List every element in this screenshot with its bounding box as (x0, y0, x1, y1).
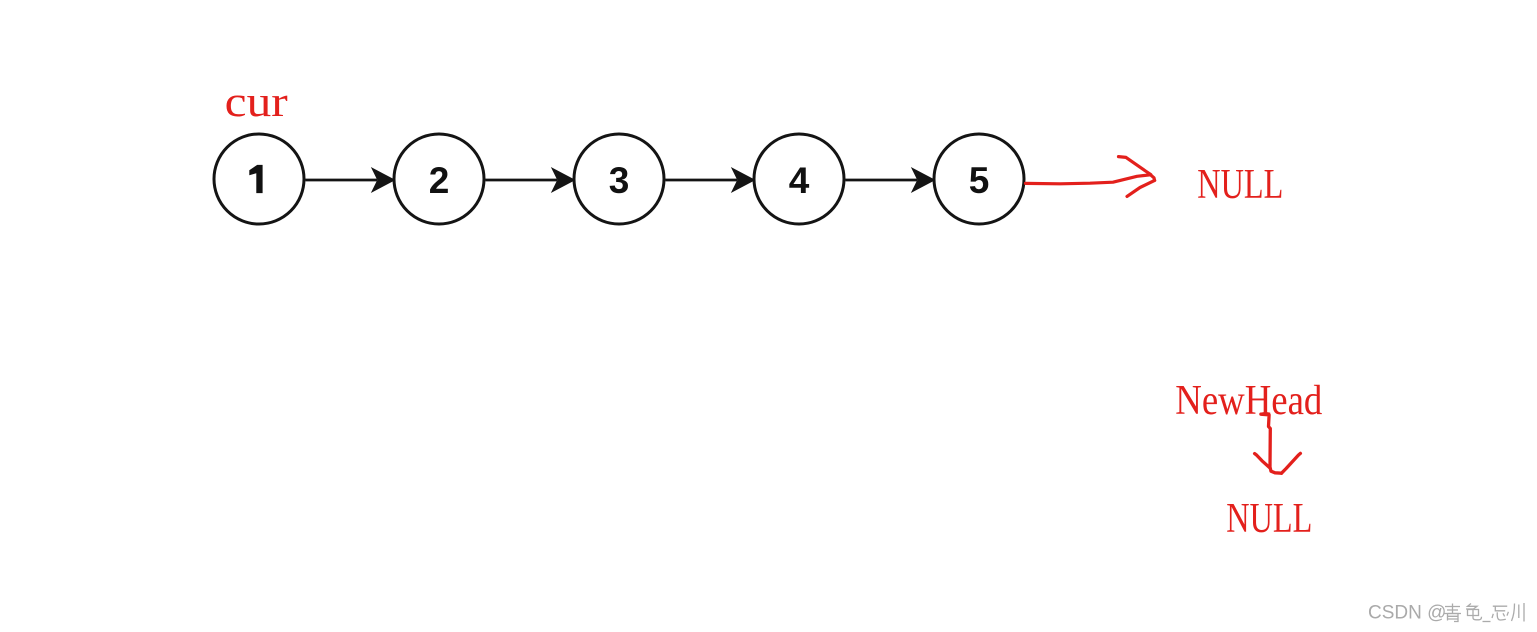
svg-text:3: 3 (609, 160, 630, 201)
svg-text:cur: cur (225, 79, 288, 126)
svg-text:4: 4 (789, 160, 810, 201)
svg-text:NULL: NULL (1226, 496, 1312, 542)
svg-text:CSDN @: CSDN @ (1368, 603, 1446, 624)
svg-text:NewHead: NewHead (1175, 378, 1322, 424)
svg-text:2: 2 (429, 160, 450, 201)
svg-text:5: 5 (969, 160, 990, 201)
svg-text:NULL: NULL (1197, 162, 1283, 208)
